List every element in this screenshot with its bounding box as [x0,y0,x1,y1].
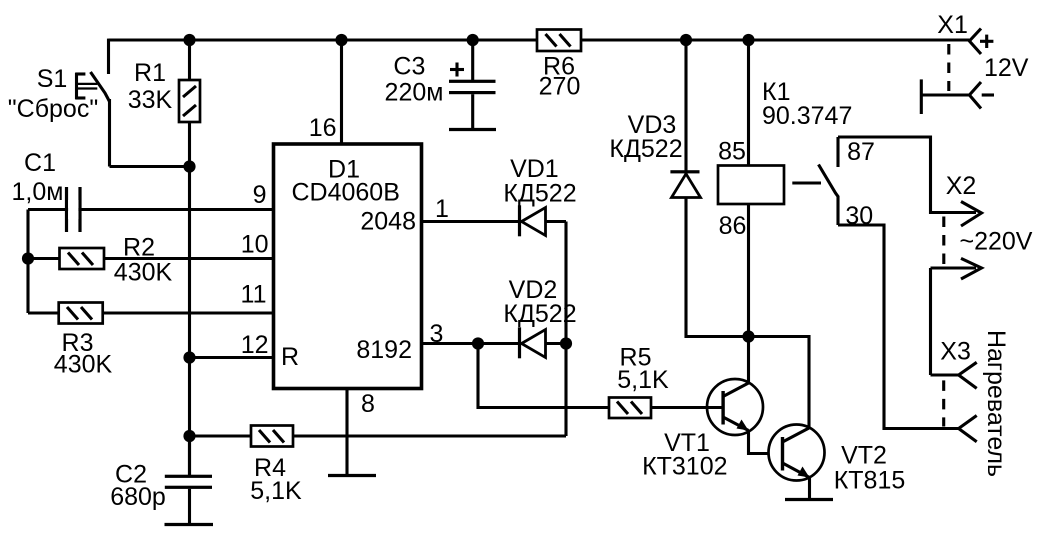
diode VD3 КД522 [609,111,700,198]
svg-text:5,1K: 5,1K [617,366,669,394]
wire VD1 cathode down [564,222,567,437]
switch S1 [8,65,110,167]
node R4 left junction [183,430,195,442]
svg-text:C3: C3 [393,53,425,81]
svg-text:30: 30 [845,202,873,230]
wire VD3 branch [686,40,749,337]
ground VT2 emitter [785,498,833,501]
node pin16 rail junction [335,34,347,46]
node VD2 anode junction [472,337,484,349]
connector X3 upper pin [931,338,977,389]
svg-text:X2: X2 [946,172,977,200]
svg-text:КД522: КД522 [609,135,682,163]
node VD2 cathode junction [560,337,572,349]
resistor R3 430K [54,303,113,379]
relay contact pole stub [792,181,821,184]
relay contact blade [819,165,839,226]
node R2 tap junction [22,252,34,264]
wire pin3 to VD2 run [422,342,567,345]
svg-text:430K: 430K [114,259,173,287]
wire pin1 to VD1 run [422,220,567,223]
svg-text:КТ815: КТ815 [834,467,906,495]
wire top rail +12V [109,38,970,41]
svg-text:87: 87 [847,138,875,166]
transistor VT1 КТ3102 [642,337,763,481]
node pin12 junction [183,351,195,363]
svg-text:10: 10 [241,231,269,259]
capacitor C2 680p [110,436,213,525]
resistor R2 430K [60,234,173,287]
svg-text:3: 3 [430,320,444,348]
connector X3 lower pin [959,416,977,442]
svg-text:8192: 8192 [356,336,412,364]
node collector junction [742,330,754,342]
connector X2 upper pin [946,172,982,226]
svg-text:R1: R1 [134,59,166,87]
svg-text:КТ3102: КТ3102 [642,453,727,481]
svg-text:270: 270 [539,73,581,101]
svg-text:16: 16 [309,114,337,142]
svg-text:R2: R2 [123,234,155,262]
wire pin10 line [28,257,274,260]
svg-text:90.3747: 90.3747 [762,102,852,130]
node C3 rail junction [467,34,479,46]
svg-text:"Сброс": "Сброс" [8,95,98,123]
wire R1 vertical branch [188,40,191,476]
svg-text:X3: X3 [940,338,971,366]
op IC D1 CD4060B [274,144,422,389]
node K1 rail junction [742,34,754,46]
wire R4 run [190,434,567,437]
svg-text:КД522: КД522 [503,300,576,328]
svg-text:C1: C1 [24,149,56,177]
wire X2 dashed link [942,217,945,265]
wire X1 dashed link [947,44,950,91]
svg-text:1,0м: 1,0м [12,178,64,206]
wire pin9 line with C1 [28,208,274,211]
node R1 rail junction [183,34,195,46]
resistor R4 5,1K [250,426,302,506]
contact 87 wire [838,137,976,213]
wire VT2 collector run [749,337,810,429]
resistor R1 33K [128,59,200,122]
svg-text:~220V: ~220V [960,228,1033,256]
svg-text:1: 1 [435,195,449,223]
capacitor C1 1,0м [12,149,82,232]
svg-text:33K: 33K [128,86,173,114]
svg-text:R: R [281,343,299,371]
connector X2 lower pin [931,258,982,375]
svg-text:Нагреватель: Нагреватель [982,330,1010,477]
capacitor C3 220м [385,40,496,130]
svg-text:9: 9 [253,181,267,209]
transistor VT2 КТ815 [769,425,906,495]
diode VD1 КД522 [503,155,576,236]
svg-text:S1: S1 [37,65,68,93]
wire left ladder vertical [26,210,29,314]
svg-text:КД522: КД522 [503,180,576,208]
svg-text:85: 85 [718,138,746,166]
wire pin12 line [190,356,274,359]
wire S1 bottom to R1 node [110,165,190,168]
svg-text:12: 12 [241,331,269,359]
svg-text:8: 8 [361,390,375,418]
svg-text:11: 11 [241,281,267,309]
wire K1 coil branch [747,40,750,166]
wire X3 dashed link [942,380,945,426]
wire S1 upper stub [107,39,110,74]
diode VD2 КД522 [503,276,576,358]
wire VT2 emitter to ground [808,478,811,500]
svg-text:CD4060B: CD4060B [291,179,399,207]
svg-text:2048: 2048 [360,208,416,236]
svg-text:VT2: VT2 [841,442,887,470]
svg-text:430K: 430K [54,351,113,379]
relay K1 90.3747 coil [718,78,852,240]
svg-text:680p: 680p [110,483,166,511]
pin 16 [309,40,342,144]
wire contact 30 run [838,225,959,429]
svg-text:220м: 220м [385,79,444,107]
connector X1 plus pin [937,11,1029,82]
node S1/R1 junction [183,160,195,172]
resistor R5 5,1K [609,344,669,419]
svg-text:86: 86 [719,212,747,240]
svg-text:5,1K: 5,1K [250,477,302,505]
wire VT1 emitter to VT2 base [749,431,783,454]
connector X1 minus pin [921,79,994,114]
wire R5 run [478,344,723,408]
svg-text:12V: 12V [984,54,1029,82]
resistor R6 270 [537,30,581,101]
pin 8 ground [328,389,376,476]
svg-text:X1: X1 [937,11,968,39]
wire pin11 line [28,311,274,314]
node VD3 rail junction [680,34,692,46]
